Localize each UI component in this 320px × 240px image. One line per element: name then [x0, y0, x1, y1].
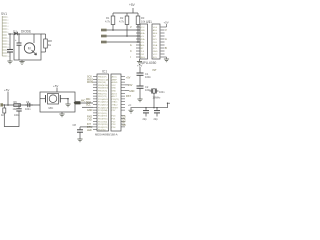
svg-text:AGND: AGND [112, 81, 118, 84]
ground [165, 56, 167, 58]
net flag SCL / wire [101, 35, 107, 38]
svg-text:ADC6: ADC6 [112, 92, 118, 95]
IC1 net labels left [86, 76, 93, 132]
svg-text:MPU-6050: MPU-6050 [141, 61, 156, 65]
svg-text:MIC: MIC [49, 106, 54, 110]
svg-text:FSY: FSY [140, 54, 145, 56]
IC1 pins right [121, 77, 125, 127]
ground under box [61, 112, 63, 114]
ground under U$1 [139, 59, 141, 62]
U$1 NC marks left [130, 26, 132, 59]
svg-text:GND: GND [153, 51, 158, 53]
svg-text:IC1: IC1 [102, 70, 107, 74]
microphone MIC1 [40, 94, 68, 105]
wire [81, 102, 94, 104]
svg-text:22p: 22p [154, 118, 159, 121]
svg-text:11: 11 [7, 47, 9, 49]
motor M [24, 43, 34, 53]
svg-text:100n: 100n [145, 75, 151, 79]
IC1 pin names left column [98, 77, 109, 132]
svg-text:AREF: AREF [112, 78, 118, 81]
svg-text:1: 1 [7, 17, 8, 19]
capacitor C1 [137, 73, 144, 75]
svg-text:R3: R3 [141, 16, 145, 20]
ground [137, 99, 142, 102]
net stub [0, 103, 3, 106]
svg-text:V: V [165, 28, 167, 32]
diode D1 [14, 32, 17, 35]
wire riser [168, 103, 171, 108]
svg-text:+5V: +5V [4, 88, 9, 92]
svg-text:GND: GND [129, 90, 135, 93]
svg-text:PB1(OC1A): PB1(OC1A) [98, 78, 109, 81]
wire power input [8, 33, 14, 35]
svg-text:XDA: XDA [153, 44, 158, 47]
svg-text:VCC: VCC [153, 54, 158, 56]
svg-text:MIC: MIC [81, 100, 86, 103]
svg-text:XDA: XDA [140, 38, 145, 41]
svg-text:SCL: SCL [86, 104, 91, 107]
svg-text:DIODE: DIODE [21, 30, 31, 34]
svg-text:+5V: +5V [164, 21, 169, 25]
+5V flag [165, 26, 167, 28]
capacitor C7 [16, 105, 21, 119]
capacitor C4 [154, 108, 160, 117]
svg-text:MEGA48/88/168-A: MEGA48/88/168-A [95, 133, 118, 137]
resistor R8 [41, 34, 47, 52]
net flag INT / wire [101, 41, 107, 44]
svg-text:13: 13 [7, 53, 9, 55]
svg-text:PB3(MOSI): PB3(MOSI) [98, 85, 109, 87]
svg-text:RES: RES [153, 33, 158, 35]
svg-text:PC0(ADC0): PC0(ADC0) [98, 98, 109, 101]
svg-text:100n: 100n [145, 88, 151, 92]
resistor R9 [14, 104, 21, 107]
svg-text:1k: 1k [48, 43, 52, 47]
svg-text:MOSI: MOSI [87, 81, 93, 84]
svg-text:14: 14 [7, 56, 9, 58]
ground [7, 61, 12, 64]
svg-text:PD3(INT1): PD3(INT1) [98, 127, 108, 129]
svg-text:22p: 22p [143, 118, 148, 121]
U$1 pins right [161, 27, 165, 57]
resistor R3 [136, 13, 140, 27]
svg-text:PD5(T1): PD5(T1) [112, 99, 120, 101]
svg-text:U$1: U$1 [146, 20, 152, 24]
svg-text:PB0(ICP): PB0(ICP) [98, 77, 107, 79]
svg-text:2: 2 [7, 20, 8, 22]
svg-text:8: 8 [7, 38, 8, 40]
svg-text:PC3(ADC3): PC3(ADC3) [98, 106, 109, 109]
svg-text:FSY: FSY [153, 39, 158, 41]
crystal Q1 [150, 89, 159, 94]
svg-text:ADC7: ADC7 [112, 95, 118, 98]
svg-text:+C: +C [128, 104, 131, 107]
svg-text:PC4(SDA): PC4(SDA) [98, 109, 108, 112]
arrow [32, 50, 37, 55]
IC1 right box [111, 74, 121, 131]
module box M1 [14, 34, 41, 60]
capacitor C3 [143, 108, 149, 117]
svg-text:+5V: +5V [126, 77, 131, 80]
svg-text:4: 4 [7, 26, 8, 28]
svg-text:4k7: 4k7 [1, 114, 6, 117]
capacitor C8 [77, 127, 93, 139]
IC1 left box [97, 74, 109, 131]
U$1 pin names [140, 27, 158, 59]
svg-text:+5V: +5V [137, 64, 142, 68]
svg-text:XTAL2: XTAL2 [112, 104, 119, 107]
svg-text:AVCC: AVCC [112, 76, 118, 79]
svg-text:GND: GND [87, 109, 93, 112]
svg-text:RST: RST [126, 95, 131, 98]
svg-text:VLG: VLG [153, 27, 158, 29]
svg-text:INT: INT [153, 69, 158, 72]
capacitor C6 [25, 103, 33, 107]
svg-text:PB4(MISO): PB4(MISO) [98, 88, 109, 90]
net labels right of U$1 [165, 28, 167, 50]
svg-text:PD0(RXD): PD0(RXD) [98, 119, 108, 121]
svg-text:CLK: CLK [140, 51, 145, 53]
svg-text:PB6(XT1): PB6(XT1) [98, 93, 107, 95]
svg-text:LED: LED [87, 129, 92, 132]
svg-text:C8: C8 [73, 123, 77, 127]
svg-text:CLK: CLK [153, 42, 158, 44]
IC1 net labels right [123, 77, 135, 127]
svg-text:3: 3 [7, 23, 8, 25]
capacitor C10 [17, 34, 22, 60]
svg-text:10: 10 [7, 44, 9, 46]
wire GND [125, 90, 129, 92]
resistor R1 [111, 13, 115, 30]
resistor R2 [125, 13, 129, 36]
module U$1 left box [140, 24, 148, 59]
svg-text:REG: REG [140, 57, 145, 59]
connector pin numbers [7, 17, 9, 58]
svg-text:PC6(RST): PC6(RST) [98, 116, 108, 118]
ground [130, 108, 132, 111]
wire AVCC [125, 84, 129, 86]
wire [82, 106, 93, 108]
connector SV1 [2, 16, 7, 56]
net flag SDA / wire [101, 29, 107, 32]
svg-text:4.7k: 4.7k [105, 20, 111, 24]
svg-text:GND: GND [140, 30, 145, 32]
svg-text:+5V: +5V [129, 3, 136, 7]
module U$1 right box [152, 24, 160, 59]
svg-text:100n: 100n [25, 108, 31, 111]
wire L [4, 119, 19, 127]
svg-text:M: M [28, 47, 31, 51]
svg-text:PB2(SS): PB2(SS) [98, 82, 106, 84]
ground [77, 139, 82, 142]
svg-text:PC2(ADC2): PC2(ADC2) [98, 104, 109, 107]
svg-text:+5V: +5V [128, 84, 133, 87]
svg-text:PD4(T0): PD4(T0) [98, 130, 106, 132]
pullup rail +5V [113, 12, 138, 14]
svg-text:PC5(SCL): PC5(SCL) [98, 113, 107, 115]
resistor R10 [3, 105, 6, 119]
ground [21, 60, 23, 62]
svg-text:9: 9 [7, 41, 8, 43]
wire [153, 94, 155, 108]
svg-text:PD2(INT0): PD2(INT0) [98, 124, 108, 126]
svg-text:100n: 100n [14, 114, 20, 117]
svg-text:SDA: SDA [140, 32, 145, 35]
ground [67, 99, 69, 104]
IC1 pin names right column [112, 76, 120, 129]
U$1 pins left [136, 27, 140, 57]
svg-text:GND: GND [112, 91, 117, 93]
svg-text:TXD: TXD [87, 118, 92, 121]
svg-text:5: 5 [7, 29, 8, 31]
net flag MIC [74, 101, 81, 104]
svg-text:XTAL1: XTAL1 [112, 101, 119, 104]
svg-text:VCC: VCC [140, 27, 145, 29]
svg-text:B: B [165, 46, 167, 50]
capacitor C2 [137, 86, 144, 88]
IC1 pins left [93, 77, 97, 130]
mic box [40, 92, 75, 112]
svg-text:R2: R2 [120, 16, 124, 20]
svg-text:PB5(SCK): PB5(SCK) [98, 91, 108, 93]
svg-text:100n: 100n [159, 91, 165, 94]
svg-text:4.7k: 4.7k [119, 20, 125, 24]
svg-text:GND: GND [112, 88, 117, 90]
svg-text:PC1(ADC1): PC1(ADC1) [98, 101, 109, 104]
svg-text:RESET: RESET [112, 107, 119, 109]
svg-text:PD1(TXD): PD1(TXD) [98, 121, 108, 123]
svg-text:PB7(XT2): PB7(XT2) [98, 96, 107, 98]
svg-text:VCC: VCC [112, 85, 117, 87]
svg-text:A: A [165, 37, 167, 41]
svg-text:SV1: SV1 [1, 12, 7, 16]
capacitor C9 [7, 34, 13, 60]
svg-text:R1: R1 [106, 16, 110, 20]
svg-text:C: C [130, 50, 132, 53]
svg-text:+5V: +5V [53, 84, 58, 88]
